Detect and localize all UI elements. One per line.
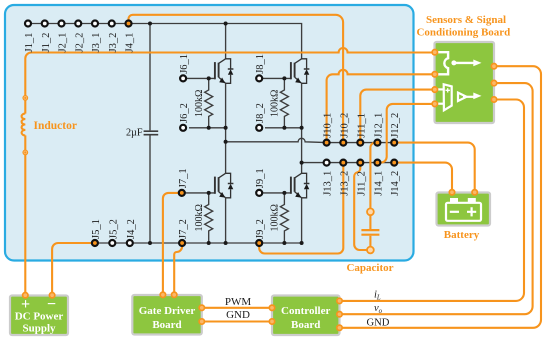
svg-text:J2_1: J2_1	[58, 33, 69, 53]
connector pin J5_2	[108, 219, 119, 246]
sensor terminal out3	[491, 97, 496, 102]
svg-text:J4_2: J4_2	[126, 219, 137, 239]
connector pin J5_1	[91, 219, 102, 246]
IGBT Q4 (bottom right, gate J9)	[259, 163, 301, 243]
svg-text:J6_1: J6_1	[179, 54, 190, 74]
connector pin J6_1	[179, 54, 190, 81]
svg-text:Sensors & Signal: Sensors & Signal	[426, 14, 506, 26]
sensor terminal in3	[432, 87, 437, 92]
svg-text:J12_2: J12_2	[390, 113, 401, 138]
svg-text:Board: Board	[291, 319, 320, 331]
capacitor C2 terminal (bottom)	[367, 247, 374, 254]
label Capacitor	[346, 262, 393, 274]
value label 2uF	[126, 128, 143, 139]
gate resistor R1 100k (J6)	[205, 78, 213, 127]
controller terminal vo	[337, 312, 342, 317]
wire: GND gate driver to controller	[202, 320, 272, 322]
battery B1	[437, 193, 491, 226]
net label PWM	[225, 296, 252, 308]
junction: leg1 emitter / J6_2 line	[224, 126, 228, 130]
DC power supply U1	[10, 296, 68, 336]
connector pin J7_1	[178, 168, 189, 196]
net label iL	[374, 290, 381, 302]
connector pin J7_2	[178, 219, 189, 246]
svg-text:Board: Board	[152, 319, 181, 331]
junction: top rail / 2uF cap	[148, 22, 152, 26]
label Inductor	[34, 120, 77, 132]
wire: DC supply - to J5_1	[52, 243, 95, 295]
gate driver terminal in1	[160, 292, 165, 297]
junction: bottom rail / R2 bottom	[207, 241, 211, 245]
label Sensors & Signal Conditioning Board	[416, 14, 510, 38]
controller terminal PWM	[269, 305, 274, 310]
svg-text:J7_1: J7_1	[178, 168, 189, 188]
connector pin J1_2	[41, 21, 52, 53]
connector pin J4_2	[126, 219, 137, 246]
svg-text:J11_2: J11_2	[356, 171, 367, 196]
connector pin J13_2	[339, 160, 350, 196]
connector pin J9_2	[255, 219, 266, 246]
connector pin J8_2	[255, 103, 266, 131]
svg-text:Conditioning Board: Conditioning Board	[416, 26, 510, 38]
gate driver terminal in2	[172, 292, 177, 297]
net label vo	[374, 303, 383, 315]
sensor terminal in1	[432, 50, 437, 55]
svg-text:J5_1: J5_1	[91, 219, 102, 239]
svg-text:J10_2: J10_2	[339, 113, 350, 138]
IGBT Q2 (bottom left, gate J7)	[182, 142, 226, 243]
battery terminal +	[472, 190, 477, 195]
svg-text:Gate Driver: Gate Driver	[139, 305, 196, 317]
junction: J6 gate / R1 top	[207, 76, 211, 80]
wire: sensor out 1 to controller GND	[340, 66, 542, 328]
wire: J10_1 to current sensor input 2 (orange, hop)	[327, 70, 436, 143]
junction: leg1 midpoint node A	[224, 140, 228, 144]
junction: bottom rail / Q4 emitter	[300, 241, 304, 245]
gate driver board U2	[132, 295, 202, 335]
DC supply terminal +	[23, 293, 28, 298]
connector pin J6_2	[179, 103, 190, 131]
svg-text:100kΩ: 100kΩ	[270, 90, 281, 117]
junction: J8_2 line / R3 bottom	[282, 126, 286, 130]
gate driver terminal PWM	[199, 305, 204, 310]
connector pin J11_2	[356, 160, 367, 196]
junction: leg2 emitter / J8_2 line	[300, 126, 304, 130]
sensor terminal out1	[491, 63, 496, 68]
junction: leg2 midpoint node B	[300, 161, 304, 165]
value label 100kOhm (R4)	[270, 204, 281, 231]
sensor terminal out2	[491, 80, 496, 85]
connector pin J10_1	[323, 113, 334, 146]
IGBT Q3 (top right, gate J8)	[259, 78, 301, 162]
junction: top rail / Q1 collector	[224, 22, 228, 26]
svg-text:J12_1: J12_1	[373, 113, 384, 138]
svg-text:J4_1: J4_1	[125, 33, 136, 53]
inductor L1	[22, 98, 26, 152]
sensor terminal in4	[432, 101, 437, 106]
sensors and signal conditioning board U4	[435, 42, 495, 123]
svg-text:vo: vo	[374, 303, 383, 315]
IGBT Q1 (top left, gate J6)	[183, 24, 226, 142]
junction: J9 gate / R4 top	[282, 191, 286, 195]
svg-text:Controller: Controller	[281, 305, 330, 317]
value label 100kOhm (R2)	[194, 204, 205, 231]
svg-text:J9_2: J9_2	[255, 219, 266, 239]
junction: J6_2 line / R1 bottom	[207, 126, 211, 130]
svg-text:J7_2: J7_2	[178, 219, 189, 239]
wire: inductor to current sensor input 1 (orange, hops J4 wire)	[25, 48, 436, 98]
connector pin J13_1	[323, 160, 334, 196]
svg-text:Battery: Battery	[444, 229, 480, 241]
sensor terminal in2	[432, 72, 437, 77]
svg-text:GND: GND	[226, 309, 250, 321]
capacitor C2 terminal (top)	[367, 208, 374, 215]
svg-text:GND: GND	[367, 318, 390, 329]
connector pin J4_1	[125, 21, 136, 53]
wire: PWM gate driver to controller	[202, 307, 272, 309]
gate resistor R4 100k (J9)	[280, 193, 288, 243]
svg-text:DC Power: DC Power	[15, 311, 64, 323]
connector pin J14_1	[373, 160, 384, 196]
connector pin J2_2	[74, 21, 85, 53]
inductor terminal node (bottom)	[22, 150, 28, 156]
converter PCB board outline	[5, 5, 414, 261]
J8_2 gate-emitter link wire	[265, 127, 302, 129]
gate resistor R3 100k (J8)	[280, 78, 288, 127]
connector pin J11_1	[356, 113, 367, 146]
svg-text:100kΩ: 100kΩ	[194, 204, 205, 231]
svg-text:2µF: 2µF	[126, 128, 143, 139]
svg-text:J10_1: J10_1	[323, 113, 334, 138]
svg-text:J8_1: J8_1	[255, 54, 266, 74]
J6_2 gate-emitter link wire	[189, 127, 226, 129]
svg-text:J9_1: J9_1	[255, 168, 266, 188]
controller terminal iL	[337, 298, 342, 303]
svg-text:J1_2: J1_2	[41, 33, 52, 53]
connector pin J9_1	[255, 168, 266, 196]
svg-text:Capacitor: Capacitor	[346, 262, 393, 274]
wire: DC supply + to inductor	[24, 152, 26, 295]
connector pin J3_2	[108, 21, 119, 53]
svg-text:J13_2: J13_2	[339, 171, 350, 196]
battery terminal -	[449, 190, 454, 195]
net label GND (right)	[367, 318, 390, 329]
svg-text:J14_1: J14_1	[373, 171, 384, 196]
leg2 midpoint tap wire to J13 row	[302, 162, 395, 164]
connector pin J2_1	[58, 21, 69, 53]
junction: bottom rail / R4 bottom	[282, 241, 286, 245]
leg1 midpoint tap wire to J10 row (hop over leg2)	[226, 138, 395, 142]
svg-text:iL: iL	[374, 290, 381, 302]
DC supply terminal -	[49, 293, 54, 298]
svg-text:100kΩ: 100kΩ	[270, 204, 281, 231]
junction: J7 gate / R2 top	[207, 191, 211, 195]
value label 100kOhm (R1)	[194, 90, 205, 117]
connector pin J10_2	[339, 113, 350, 146]
controller board U3	[272, 296, 340, 336]
connector pin J3_1	[91, 21, 102, 53]
wire: sensor out 2 to controller vo	[340, 83, 533, 314]
svg-text:PWM: PWM	[225, 296, 252, 308]
value label 100kOhm (R3)	[270, 90, 281, 117]
junction: bottom rail / 2uF cap	[148, 241, 152, 245]
label Battery	[444, 229, 480, 241]
wire: capacitor top to J12_1	[370, 143, 377, 212]
wire: J9_2 to J13_2	[259, 163, 343, 254]
connector pin J14_2	[390, 160, 401, 196]
wire: J4_1 to J10_2 (orange top route)	[129, 15, 344, 143]
junction: bottom rail / Q2 emitter	[224, 241, 228, 245]
svg-text:J8_2: J8_2	[255, 103, 266, 123]
wire: J11_2 to capacitor bottom	[354, 163, 370, 250]
capacitor C2 (output, orange)	[361, 212, 379, 250]
controller terminal GND-left	[269, 319, 274, 324]
bottom return rail wire	[95, 242, 302, 244]
gate resistor R2 100k (J7)	[205, 193, 213, 243]
wire: J7_2 to gate driver input 2	[174, 243, 182, 295]
controller terminal GND-right	[337, 325, 342, 330]
svg-text:J3_1: J3_1	[91, 33, 102, 53]
capacitor C1 2uF	[144, 24, 159, 244]
svg-text:J2_2: J2_2	[74, 33, 85, 53]
battery icon	[446, 198, 481, 221]
current sensor icon	[436, 52, 482, 74]
svg-text:J1_1: J1_1	[24, 33, 35, 53]
gate driver terminal GND	[199, 319, 204, 324]
svg-text:J14_2: J14_2	[390, 171, 401, 196]
net label GND (left)	[226, 309, 250, 321]
svg-text:J11_1: J11_1	[356, 113, 367, 138]
inductor terminal node (top)	[22, 95, 28, 101]
junction: J8 gate / R3 top	[282, 76, 286, 80]
connector pin J12_1	[373, 113, 384, 146]
wire: J14_2 to battery -	[394, 163, 452, 193]
wire: J11_1 to voltage sensor input 3	[360, 90, 436, 143]
svg-text:J6_2: J6_2	[179, 103, 190, 123]
wire: J12_2 to battery +	[394, 143, 475, 193]
top DC rail wire	[28, 24, 302, 60]
svg-text:J13_1: J13_1	[323, 171, 334, 196]
svg-text:Inductor: Inductor	[34, 120, 77, 132]
svg-text:100kΩ: 100kΩ	[194, 90, 205, 117]
wire: sensor out 3 to controller iL	[340, 100, 525, 301]
connector pin J12_2	[390, 113, 401, 146]
connector pin J1_1	[24, 21, 35, 53]
svg-text:J5_2: J5_2	[108, 219, 119, 239]
svg-text:Supply: Supply	[22, 323, 56, 335]
wire: J14_1 to voltage sensor input 4	[377, 104, 436, 163]
voltage sensor icon	[436, 84, 482, 110]
svg-text:J3_2: J3_2	[108, 33, 119, 53]
connector pin J8_1	[255, 54, 266, 81]
wire: J7_1 to gate driver input 1	[163, 193, 182, 295]
